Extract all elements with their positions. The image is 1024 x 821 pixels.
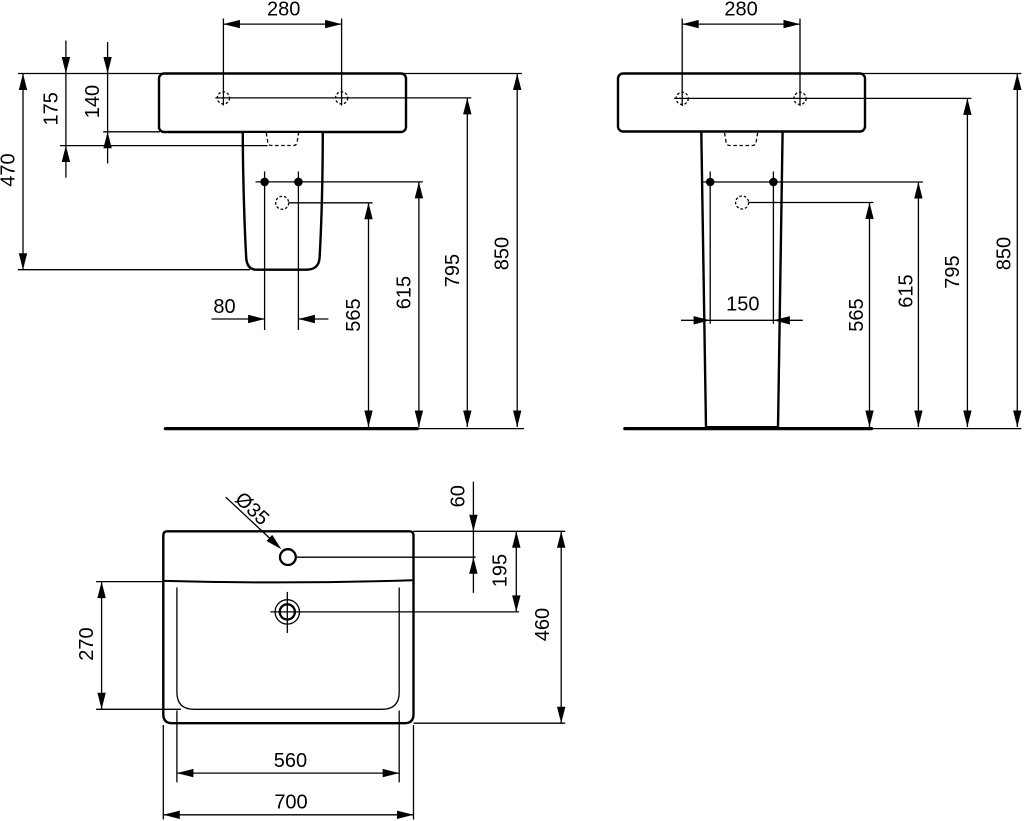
tap hole circle [280,549,296,565]
dashed siphon cup (left view) [266,133,298,146]
extension line left dot / 80 dim [264,172,266,331]
pedestal fixing hole right dot (right view) [769,178,778,187]
arrow 565 top (right view) [865,203,873,220]
svg-text:615: 615 [393,276,415,309]
dimension line 150 right tail [773,319,802,321]
dimension line 150 left tail [681,319,710,321]
dimension line 460 [560,531,562,723]
dimension line 175 [65,41,67,178]
extension line 280 left [222,19,224,106]
dimension line 280 (right view) [682,23,800,25]
dimension line 60 [472,482,474,593]
svg-text:850: 850 [492,237,514,270]
ref line through mounting holes (795 level, right view) [674,97,971,99]
extension line 280 right [341,19,343,106]
arrow 560 right [383,769,400,777]
extension line 700 left [162,725,164,820]
pedestal fixing hole left dot (right view) [706,178,715,187]
svg-text:175: 175 [40,92,62,125]
ref line bottom edge (plan right) [414,722,566,724]
arrow 615 top (right view) [914,182,922,199]
arrow 615 bottom (right view) [914,411,922,428]
mounting hole right (dashed circle) [336,92,348,104]
dimension line 80 left tail [212,318,265,320]
pedestal fixing hole right (dot) [294,178,303,187]
basin body outline (right view) [618,74,865,132]
svg-text:280: 280 [267,0,300,20]
extension line 280 left (right view) [681,19,683,107]
svg-text:795: 795 [442,254,464,287]
arrow 60 bottom [469,557,477,574]
ref line waste outlet (565 level) [289,202,373,204]
svg-text:60: 60 [447,485,469,507]
ref line through fixing dots (615 level) [256,181,423,183]
ref line tap hole (60/195 level) [296,556,476,558]
ref line rim level (right view) [860,73,1021,75]
arrow 795 top (left view) [463,98,471,115]
leader arrowhead Ø35 [267,535,282,549]
arrow 565 bottom (left view) [364,411,372,428]
ref line overflow level (175) [60,145,268,147]
arrow 150 left [694,316,711,324]
svg-text:615: 615 [895,274,917,307]
inner bowl outline (plan) [177,588,399,710]
arrow 795 bottom (left view) [463,411,471,428]
extension line 560 right [398,711,400,783]
arrow 700 left [163,811,180,819]
dimension line 270 [101,582,103,710]
extension line 560 left [176,711,178,783]
drain crosshair horizontal / ref line 195 [270,611,519,613]
arrow 280 left (right view) [682,20,699,28]
arrow 150 right [773,316,790,324]
svg-text:565: 565 [343,298,365,331]
svg-text:700: 700 [274,791,307,813]
dimension line 850 (right view) [1016,74,1018,428]
arrow 80 left [248,315,265,323]
drain inner circle [280,604,295,619]
ref line bottom of semi-pedestal [18,269,250,271]
extension line right dot / 80 dim [297,172,299,331]
svg-text:795: 795 [942,255,964,288]
floor line thick (right view) [625,427,872,430]
svg-text:565: 565 [846,298,868,331]
extension line right dot / 150 dim [772,172,774,324]
floor line thick (left view) [165,427,417,430]
arrow 560 left [177,769,194,777]
arrow 850 top (right view) [1013,74,1021,91]
basin outer outline (plan) [163,531,413,723]
pedestal fixing hole left (dot) [260,178,269,187]
arrow 280 right (right view) [784,20,801,28]
dimension line 565 (left view) [368,203,370,427]
dimension line 470 [22,74,24,270]
dimension line 140 [107,42,109,164]
floor line thin continuation (right view) [872,428,1022,430]
arrow 795 top (right view) [963,98,971,115]
ref line top edge (plan right) [414,530,566,532]
arrow 615 top (left view) [415,182,423,199]
svg-text:150: 150 [726,294,759,316]
basin body outline (left view) [159,74,406,133]
svg-text:850: 850 [994,237,1016,270]
arrow 850 bottom (right view) [1013,411,1021,428]
dimension line 150 middle [710,319,773,321]
dimension line 80 right tail [298,318,328,320]
dimension line 615 (right view) [917,182,919,427]
arrow 140 top [103,57,111,74]
dashed waste outlet circle (right view) [736,196,749,209]
ref line 270 top [96,581,164,583]
full pedestal outline [701,132,782,428]
svg-text:80: 80 [213,296,235,318]
semi-pedestal outline [243,133,323,270]
mounting hole left (dashed circle) [217,92,229,104]
ref line through fixing dots (615 level, right view) [701,181,923,183]
dimension line 615 (left view) [418,182,420,427]
arrow 175 bottom [62,146,70,163]
svg-text:195: 195 [489,554,511,587]
arrow 460 top [557,531,565,548]
extension line left dot / 150 dim [709,172,711,324]
arrow 140 bottom [103,132,111,149]
svg-text:140: 140 [82,85,104,118]
ref line waste outlet (565 level, right view) [748,202,873,204]
arrow 280 right [325,20,342,28]
svg-text:560: 560 [274,750,307,772]
arrow 850 top (left view) [513,74,521,91]
dimension line 795 (left view) [466,98,468,427]
arrow 80 right [298,315,315,323]
arrow 195 bottom [512,595,520,612]
drain crosshair vertical [286,592,288,633]
arrow 270 top [97,582,105,599]
arrow 195 top [512,531,520,548]
ref line basin underside (140) [103,131,160,133]
svg-text:270: 270 [76,627,98,660]
front edge curve (plan) [164,580,412,582]
floor line thin continuation (left view) [417,428,524,430]
dashed siphon cup (right view) [725,133,758,146]
extension line 700 right [413,725,415,820]
svg-text:470: 470 [0,153,20,186]
mounting hole right (right view) [794,92,806,104]
dimension line 280 (left view) [223,23,341,25]
arrow 175 top [62,57,70,74]
leader line for tap hole diameter [226,497,277,544]
svg-text:460: 460 [532,608,554,641]
dimension line 850 (left view) [516,74,518,428]
arrow 700 right [397,811,414,819]
mounting hole left (right view) [676,92,688,104]
arrow 280 left [223,20,240,28]
arrow 795 bottom (right view) [963,411,971,428]
arrow 60 top [469,515,477,532]
dimension line 560 [177,772,399,774]
arrow 270 bottom [97,693,105,710]
svg-text:280: 280 [724,0,757,20]
arrow 850 bottom (left view) [513,411,521,428]
arrow 565 bottom (right view) [865,411,873,428]
arrow 470 bottom [19,253,27,270]
arrow 565 top (left view) [364,203,372,220]
ref line 270 bottom [96,708,181,710]
dimension line 700 [163,814,413,816]
dimension line 195 [515,531,517,612]
arrow 470 top [19,74,27,91]
dimension line 565 (right view) [869,203,871,428]
ref line rim level (left view) [18,73,522,75]
drain outer circle [275,600,299,624]
pedestal bottom edge line [706,426,779,428]
extension line 280 right (right view) [799,19,801,107]
ref line through mounting holes (795 level) [215,97,471,99]
arrow 615 bottom (left view) [415,411,423,428]
arrow 460 bottom [557,707,565,724]
dashed waste outlet circle (left view) [276,196,289,209]
dimension line 795 (right view) [966,98,968,427]
